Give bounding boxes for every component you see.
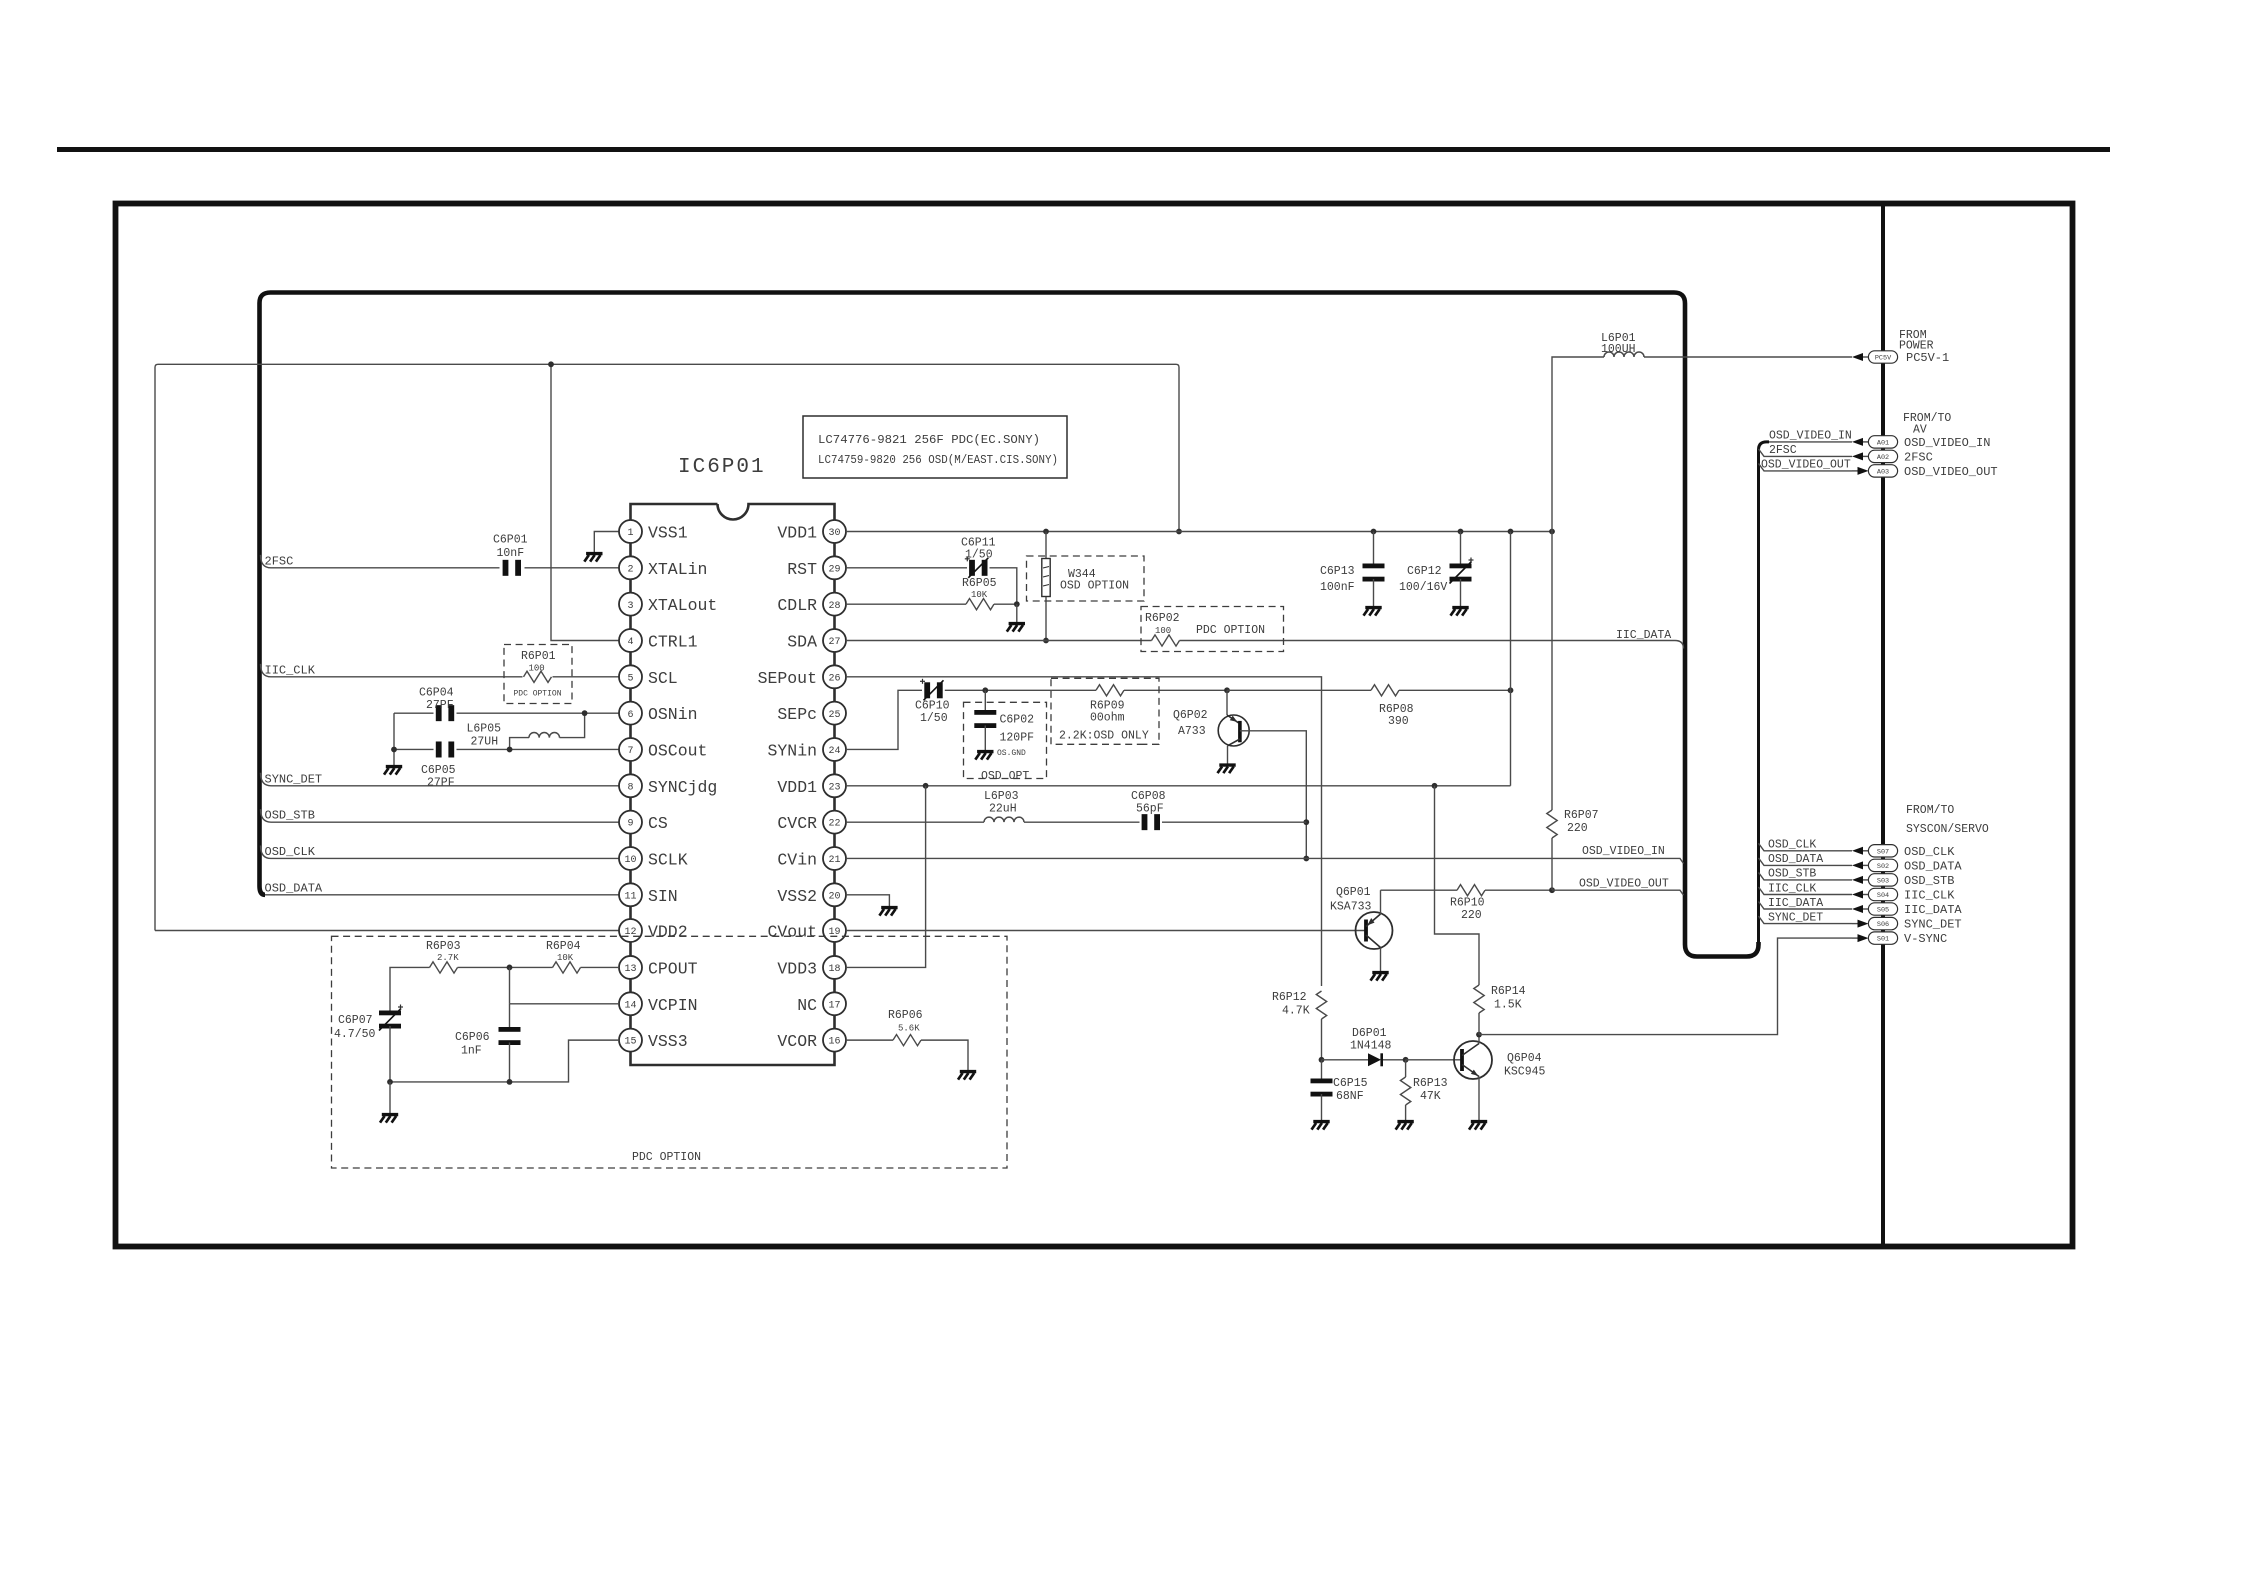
- svg-text:S04: S04: [1877, 892, 1889, 900]
- IC pin 2 XTALin: [619, 556, 642, 579]
- svg-text:100: 100: [529, 664, 545, 674]
- svg-text:VSS2: VSS2: [777, 887, 817, 906]
- IC pin 19 CVout: [823, 919, 846, 942]
- cable bundle bus (thick loop): [260, 293, 1759, 957]
- svg-text:SYSCON/SERVO: SYSCON/SERVO: [1906, 823, 1989, 836]
- wire C6P05 left: [394, 748, 434, 750]
- svg-text:CVCR: CVCR: [777, 814, 817, 833]
- wire C6P07 to bottom rail: [389, 1026, 391, 1082]
- svg-text:21: 21: [828, 855, 840, 866]
- svg-text:IIC_CLK: IIC_CLK: [1904, 889, 1955, 903]
- connector S07: [1868, 845, 1897, 857]
- IC pin 11 SIN: [619, 883, 642, 906]
- svg-text:R6P01: R6P01: [521, 650, 556, 663]
- svg-text:VDD2: VDD2: [648, 923, 688, 942]
- resistor R6P05: [966, 599, 994, 610]
- wire C6P08 to base riser: [1162, 821, 1306, 823]
- wire SDA to R6P02: [846, 639, 1152, 641]
- svg-text:25: 25: [828, 710, 840, 721]
- svg-text:Q6P01: Q6P01: [1336, 886, 1371, 899]
- wire R6P07 bottom: [1551, 838, 1553, 890]
- svg-text:10K: 10K: [971, 590, 988, 600]
- capacitor C6P15: [1311, 1079, 1333, 1084]
- wire Q6P02 base to CVin: [1240, 731, 1306, 859]
- wire SEPout to R6P12 corner: [846, 677, 1322, 986]
- svg-text:13: 13: [624, 964, 636, 975]
- junction R6P08/VDD1 riser: [1508, 687, 1514, 693]
- svg-text:S06: S06: [1877, 921, 1889, 929]
- svg-text:PC5V-1: PC5V-1: [1906, 351, 1949, 365]
- wire R6P13 to ground: [1405, 1105, 1407, 1120]
- svg-text:AV: AV: [1913, 424, 1927, 437]
- svg-text:100: 100: [1155, 626, 1171, 636]
- wire VDD2 to pin 12: [155, 930, 619, 932]
- svg-text:56pF: 56pF: [1136, 803, 1164, 816]
- svg-text:IC6P01: IC6P01: [678, 456, 766, 479]
- wire S07 arrow tail: [1863, 850, 1869, 852]
- svg-text:27PF: 27PF: [427, 777, 455, 790]
- svg-text:11: 11: [624, 891, 636, 902]
- svg-text:IIC_DATA: IIC_DATA: [1768, 897, 1823, 910]
- wire S06 arrow tail: [1852, 923, 1858, 925]
- svg-text:R6P03: R6P03: [426, 940, 461, 953]
- wire S03 arrow tail: [1863, 879, 1869, 881]
- wire Q6P01 emitter riser: [1380, 890, 1382, 914]
- svg-text:VSS3: VSS3: [648, 1032, 688, 1051]
- wire C6P15 to ground: [1321, 1094, 1323, 1120]
- svg-text:1N4148: 1N4148: [1350, 1040, 1392, 1053]
- IC pin 29 RST: [823, 556, 846, 579]
- svg-text:R6P02: R6P02: [1145, 612, 1180, 625]
- connector S03: [1868, 874, 1897, 886]
- junction bottom rail / C6P07: [387, 1079, 393, 1085]
- svg-text:4: 4: [627, 637, 633, 648]
- svg-text:VCPIN: VCPIN: [648, 996, 698, 1015]
- svg-text:5.6K: 5.6K: [898, 1024, 920, 1034]
- IC pin 4 CTRL1: [619, 629, 642, 652]
- transistor Q6P01 KSA733: [1356, 912, 1393, 949]
- wire S05 arrow tail: [1863, 908, 1869, 910]
- svg-text:SCL: SCL: [648, 669, 678, 688]
- wire 2FSC branch: [261, 555, 500, 568]
- arrow S07 (left): [1852, 847, 1863, 855]
- svg-text:C6P08: C6P08: [1131, 790, 1166, 803]
- IC pin 22 CVCR: [823, 811, 846, 834]
- svg-text:IIC_DATA: IIC_DATA: [1616, 629, 1671, 642]
- svg-text:OSD_VIDEO_IN: OSD_VIDEO_IN: [1769, 430, 1852, 443]
- wire S02 arrow tail: [1863, 864, 1869, 866]
- IC pin 18 VDD3: [823, 956, 846, 979]
- svg-text:D6P01: D6P01: [1352, 1027, 1387, 1040]
- svg-text:CS: CS: [648, 814, 668, 833]
- junction C6P02 tap: [982, 687, 988, 693]
- wire R6P04 to R6P03: [458, 966, 553, 968]
- svg-text:26: 26: [828, 673, 840, 684]
- ground (Q6P04): [1469, 1122, 1487, 1130]
- wire V-SYNC: [1479, 938, 1852, 1035]
- resistor R6P02: [1152, 635, 1180, 646]
- svg-text:OS.GND: OS.GND: [997, 749, 1026, 758]
- svg-text:OSD_VIDEO_OUT: OSD_VIDEO_OUT: [1761, 459, 1851, 472]
- svg-text:27PF: 27PF: [426, 699, 454, 712]
- svg-text:KSA733: KSA733: [1330, 901, 1372, 914]
- svg-text:2FSC: 2FSC: [1769, 444, 1797, 457]
- ground (C6P07 rail): [380, 1115, 398, 1123]
- arrow A03 (right): [1858, 467, 1869, 475]
- svg-text:OSD_CLK: OSD_CLK: [1768, 839, 1816, 852]
- IC pin 23 VDD1: [823, 774, 846, 797]
- wire S07 stub: [1759, 843, 1853, 851]
- IC pin 10 SCLK: [619, 847, 642, 870]
- board edge connector line: [1881, 202, 1885, 1248]
- jumper W344: [1042, 559, 1050, 597]
- wire OSD_DATA to pin 11: [265, 894, 619, 896]
- wire S02 stub: [1759, 858, 1853, 866]
- wire C6P13 drop: [1373, 532, 1375, 567]
- capacitor C6P05: [436, 741, 442, 757]
- svg-text:KSC945: KSC945: [1504, 1066, 1546, 1079]
- ground (Q6P01): [1371, 973, 1389, 981]
- wire C6P04 left: [394, 712, 434, 714]
- IC pin 15 VSS3: [619, 1029, 642, 1052]
- svg-text:27: 27: [828, 637, 840, 648]
- connector S04: [1868, 888, 1897, 900]
- arrow S03 (left): [1852, 876, 1863, 884]
- wire VDD2 loop (left/top/right): [155, 364, 1179, 930]
- svg-text:VDD3: VDD3: [777, 959, 817, 978]
- junction C6P05 left: [391, 747, 397, 753]
- svg-text:220: 220: [1461, 909, 1482, 922]
- wire R6P12 to D6P01: [1321, 1019, 1323, 1060]
- wire VSS3 route: [390, 1040, 619, 1082]
- junction VDD1/x1510: [1508, 529, 1514, 535]
- svg-text:FROM/TO: FROM/TO: [1903, 412, 1951, 425]
- capacitor C6P01: [503, 560, 509, 576]
- wire S04 arrow tail: [1863, 894, 1869, 896]
- svg-text:L6P05: L6P05: [467, 723, 502, 736]
- wire emitter to R6P10: [1381, 889, 1458, 891]
- wire A02 arrow tail: [1863, 455, 1869, 457]
- svg-text:1: 1: [627, 528, 633, 539]
- svg-text:CTRL1: CTRL1: [648, 632, 698, 651]
- wire left leg caps to ground: [393, 713, 395, 765]
- ground (VSS2): [879, 908, 897, 916]
- dashed box OSD OPT (C6P02): [964, 702, 1047, 778]
- wire pin1 VSS1 to ground: [594, 532, 619, 553]
- svg-text:R6P05: R6P05: [962, 577, 997, 590]
- svg-text:VDD1: VDD1: [777, 524, 817, 543]
- wire L6P01 to PC5V: [1644, 356, 1852, 358]
- ground (C6P04/C6P05): [384, 767, 402, 775]
- svg-text:1/50: 1/50: [965, 549, 993, 562]
- wire x1510 riser: [1510, 532, 1512, 786]
- svg-text:S05: S05: [1877, 907, 1889, 915]
- svg-text:A01: A01: [1877, 440, 1889, 448]
- ground (R6P05): [1007, 624, 1025, 632]
- dashed box PDC OPTION (bottom): [332, 936, 1008, 1168]
- svg-text:XTALin: XTALin: [648, 560, 707, 579]
- svg-text:27UH: 27UH: [471, 736, 499, 749]
- resistor R6P04: [553, 962, 581, 973]
- junction VDD1/C6P12: [1458, 529, 1464, 535]
- capacitor C6P07 (polarized): [379, 1011, 401, 1016]
- svg-text:OSD_DATA: OSD_DATA: [1904, 859, 1962, 873]
- dashed box R6P09: [1051, 678, 1159, 744]
- svg-text:6: 6: [627, 710, 633, 721]
- wire RST to C6P11: [846, 567, 967, 569]
- svg-text:SDA: SDA: [787, 632, 817, 651]
- resistor R6P10: [1457, 885, 1485, 896]
- junction VDD1/W344: [1043, 529, 1049, 535]
- IC pin 27 SDA: [823, 629, 846, 652]
- svg-text:LC74776-9821 256F PDC(EC.SONY): LC74776-9821 256F PDC(EC.SONY): [818, 433, 1040, 447]
- inductor L6P01: [1604, 352, 1644, 357]
- IC pin 28 CDLR: [823, 593, 846, 616]
- svg-text:SCLK: SCLK: [648, 850, 688, 869]
- svg-text:NC: NC: [797, 996, 817, 1015]
- IC pin 3 XTALout: [619, 593, 642, 616]
- resistor R6P08: [1371, 685, 1399, 696]
- svg-text:28: 28: [828, 601, 840, 612]
- junction L6P05 top: [582, 710, 588, 716]
- IC pin 21 CVin: [823, 847, 846, 870]
- svg-text:100nF: 100nF: [1320, 581, 1355, 594]
- svg-text:OSD_STB: OSD_STB: [1768, 868, 1816, 881]
- svg-text:17: 17: [828, 1000, 840, 1011]
- transistor Q6P04 KSC945: [1454, 1041, 1492, 1079]
- svg-text:OSD_VIDEO_OUT: OSD_VIDEO_OUT: [1579, 877, 1669, 890]
- svg-text:A02: A02: [1877, 454, 1889, 462]
- IC pin 13 CPOUT: [619, 956, 642, 979]
- svg-text:LC74759-9820 256 OSD(M/EAST.CI: LC74759-9820 256 OSD(M/EAST.CIS.SONY): [818, 453, 1058, 467]
- IC pin 14 VCPIN: [619, 992, 642, 1015]
- top rule line: [57, 147, 2110, 152]
- resistor R6P07 (vertical): [1547, 810, 1557, 838]
- wire R6P10 to R6P07: [1485, 889, 1552, 891]
- wire A01 arrow tail: [1863, 441, 1869, 443]
- resistor R6P13 (vertical): [1400, 1077, 1410, 1105]
- svg-text:OSD_DATA: OSD_DATA: [265, 881, 323, 895]
- svg-text:C6P05: C6P05: [421, 764, 456, 777]
- svg-text:00ohm: 00ohm: [1090, 712, 1125, 725]
- svg-text:PDC OPTION: PDC OPTION: [632, 1151, 701, 1164]
- capacitor C6P12 (polarized): [1450, 564, 1472, 569]
- svg-text:C6P04: C6P04: [419, 687, 454, 700]
- svg-text:7: 7: [627, 746, 633, 757]
- resistor R6P14 (vertical): [1474, 985, 1484, 1013]
- svg-text:R6P07: R6P07: [1564, 809, 1599, 822]
- svg-text:S07: S07: [1877, 848, 1889, 856]
- wire R6P06 to ground: [921, 1040, 968, 1070]
- wire C6P07 ground stem: [389, 1082, 391, 1113]
- wire pin7 OSCout: [457, 748, 620, 750]
- svg-text:100UH: 100UH: [1601, 343, 1636, 356]
- arrow S01 (right): [1858, 934, 1869, 942]
- svg-text:VSS1: VSS1: [648, 524, 688, 543]
- capacitor C6P10 (polarized): [924, 682, 930, 698]
- wire R6P09 to Q6P02: [1124, 689, 1227, 691]
- svg-text:1.5K: 1.5K: [1494, 999, 1522, 1012]
- junction R6P07 bottom: [1549, 887, 1555, 893]
- wire A02 stub: [1759, 449, 1853, 457]
- wire VCPIN to riser: [510, 1003, 620, 1005]
- svg-text:PDC OPTION: PDC OPTION: [514, 690, 562, 699]
- svg-text:PC5V: PC5V: [1875, 355, 1892, 363]
- wire OSD_VIDEO_OUT to bus: [1552, 890, 1684, 895]
- wire to ground below R6P05: [1016, 604, 1018, 622]
- junction D6P01/R6P13: [1403, 1057, 1409, 1063]
- svg-text:OSD_CLK: OSD_CLK: [265, 845, 316, 859]
- wire Q6P04 emitter to ground: [1478, 1077, 1480, 1121]
- wire S05 stub: [1759, 902, 1853, 910]
- junction R6P03/R6P04/VCPIN: [507, 965, 513, 971]
- svg-text:CVout: CVout: [767, 923, 817, 942]
- svg-text:R6P06: R6P06: [888, 1009, 923, 1022]
- resistor R6P06: [893, 1035, 921, 1046]
- wire Q6P02 to R6P08: [1227, 689, 1371, 691]
- svg-text:OSD_VIDEO_IN: OSD_VIDEO_IN: [1582, 845, 1665, 858]
- svg-text:OSD_VIDEO_OUT: OSD_VIDEO_OUT: [1904, 465, 1998, 479]
- svg-text:Q6P02: Q6P02: [1173, 709, 1208, 722]
- junction CTRL1 top: [548, 361, 554, 367]
- wire D6P01 anode: [1322, 1059, 1369, 1061]
- wire OSD_CLK branch: [261, 845, 620, 858]
- svg-text:SIN: SIN: [648, 887, 678, 906]
- IC pin 24 SYNin: [823, 738, 846, 761]
- connector S01: [1868, 932, 1897, 944]
- svg-text:2: 2: [627, 564, 633, 575]
- wire W344 vertical: [1045, 532, 1047, 641]
- transistor Q6P02 A733: [1218, 715, 1249, 746]
- svg-text:C6P10: C6P10: [915, 700, 950, 713]
- wire to Q6P04 base: [1406, 1059, 1462, 1061]
- svg-text:C6P06: C6P06: [455, 1031, 490, 1044]
- connector S06: [1868, 917, 1897, 929]
- wire C6P11 right: [990, 568, 1017, 604]
- svg-text:S03: S03: [1877, 878, 1889, 886]
- svg-text:3: 3: [627, 601, 633, 612]
- arrow A01 (left): [1852, 438, 1863, 446]
- wire pin6 OSNin: [457, 712, 620, 714]
- svg-text:SEPout: SEPout: [758, 669, 817, 688]
- dashed box PDC OPTION (R6P01): [504, 645, 572, 704]
- svg-text:L6P03: L6P03: [984, 790, 1019, 803]
- arrow S02 (left): [1852, 861, 1863, 869]
- arrow S04 (left): [1852, 891, 1863, 899]
- svg-text:C6P15: C6P15: [1333, 1077, 1368, 1090]
- connector S05: [1868, 903, 1897, 915]
- connector A03: [1868, 465, 1897, 477]
- svg-text:C6P12: C6P12: [1407, 565, 1442, 578]
- svg-text:S01: S01: [1877, 936, 1889, 944]
- wire CVCR to L6P03: [846, 821, 984, 823]
- svg-text:FROM/TO: FROM/TO: [1906, 804, 1954, 817]
- arrow A02 (left): [1852, 452, 1863, 460]
- IC IC6P01 body: [631, 504, 835, 1065]
- svg-text:OSD OPTION: OSD OPTION: [1060, 580, 1129, 593]
- wire S06 stub: [1759, 916, 1853, 924]
- dashed box W344 OSD OPTION: [1027, 556, 1145, 601]
- svg-text:OSD_DATA: OSD_DATA: [1768, 853, 1823, 866]
- svg-text:10K: 10K: [557, 953, 574, 963]
- svg-text:IIC_DATA: IIC_DATA: [1904, 903, 1962, 917]
- IC pin 16 VCOR: [823, 1029, 846, 1052]
- inductor L6P05 link: [560, 713, 585, 737]
- wire L6P01 riser: [1552, 357, 1604, 532]
- wire C6P06 drop: [509, 1004, 511, 1030]
- wire R6P07 top: [1551, 532, 1553, 811]
- wire R6P08 to VDD1 riser: [1399, 689, 1511, 691]
- wire S01 arrow tail: [1852, 937, 1858, 939]
- svg-text:OSD_CLK: OSD_CLK: [1904, 845, 1955, 859]
- svg-text:SYNin: SYNin: [767, 741, 817, 760]
- wire A01 stub: [1769, 441, 1852, 443]
- IC type table box: [803, 416, 1067, 478]
- junction VDD3 riser: [923, 783, 929, 789]
- capacitor C6P13: [1363, 564, 1385, 569]
- wire C6P10 to R6P09: [945, 689, 1096, 691]
- wire arrow to PC5V oval: [1863, 356, 1869, 358]
- junction L6P05 bottom: [507, 747, 513, 753]
- svg-text:OSD OPT: OSD OPT: [981, 770, 1029, 783]
- IC pin 20 VSS2: [823, 883, 846, 906]
- ground (R6P13): [1396, 1122, 1414, 1130]
- wire C6P02 to ground: [984, 726, 986, 751]
- svg-text:16: 16: [828, 1037, 840, 1048]
- svg-text:9: 9: [627, 819, 633, 830]
- ground (C6P12): [1451, 608, 1469, 616]
- svg-text:20: 20: [828, 891, 840, 902]
- wire R6P14 bottom: [1478, 1013, 1480, 1035]
- svg-text:23: 23: [828, 782, 840, 793]
- wire CDLR to R6P05: [846, 603, 966, 605]
- wire C6P12 to ground: [1460, 579, 1462, 606]
- svg-text:100/16V: 100/16V: [1399, 581, 1447, 594]
- capacitor C6P02: [974, 710, 996, 715]
- wire A03 stub: [1759, 463, 1853, 471]
- arrow S05 (left): [1852, 905, 1863, 913]
- svg-text:R6P10: R6P10: [1450, 897, 1485, 910]
- diode D6P01 1N4148: [1368, 1053, 1381, 1066]
- svg-text:10nF: 10nF: [497, 547, 525, 560]
- svg-text:RST: RST: [787, 560, 817, 579]
- resistor R6P03: [430, 962, 458, 973]
- wire IIC_CLK branch: [261, 664, 523, 677]
- IC pin 9 CS: [619, 811, 642, 834]
- svg-text:4.7K: 4.7K: [1282, 1005, 1310, 1018]
- ground (C6P02 OS.GND): [975, 752, 993, 760]
- wire S04 stub: [1759, 887, 1853, 895]
- svg-text:C6P02: C6P02: [1000, 714, 1035, 727]
- svg-text:2.2K:OSD ONLY: 2.2K:OSD ONLY: [1059, 730, 1149, 743]
- resistor R6P09: [1096, 685, 1124, 696]
- svg-text:SYNC_DET: SYNC_DET: [1904, 918, 1962, 932]
- capacitor C6P08: [1142, 814, 1148, 830]
- junction D6P01 anode: [1319, 1057, 1325, 1063]
- IC pin 30 VDD1: [823, 520, 846, 543]
- svg-text:R6P13: R6P13: [1413, 1077, 1448, 1090]
- svg-text:XTALout: XTALout: [648, 596, 717, 615]
- wire SYNC_DET branch: [261, 773, 620, 786]
- wire R6P03 to C6P07: [390, 967, 430, 1013]
- svg-text:R6P04: R6P04: [546, 940, 581, 953]
- svg-text:30: 30: [828, 528, 840, 539]
- junction C6P11/R6P05: [1014, 601, 1020, 607]
- junction base riser / C6P08: [1303, 819, 1309, 825]
- IC pin 26 SEPout: [823, 665, 846, 688]
- svg-text:22: 22: [828, 819, 840, 830]
- junction W344/SDA: [1043, 638, 1049, 644]
